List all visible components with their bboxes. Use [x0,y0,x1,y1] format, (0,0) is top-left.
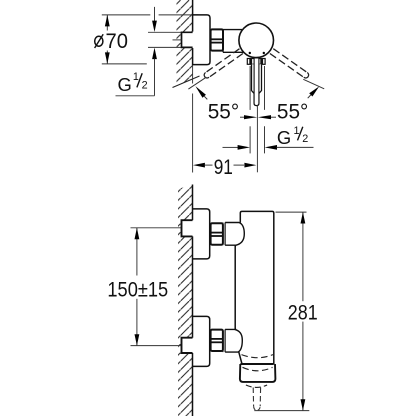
union nut bottom (bottom view) [211,330,223,351]
mixer body column (bottom view) [235,211,274,364]
lever / outlet centerline [256,105,258,172]
G1/2 (shower outlet) dimension arrows [223,146,239,148]
150±15 extension/centre lines [131,227,182,229]
shower hose nut block (bottom view) [240,363,273,365]
dimension Ø70: extension lines [102,14,151,16]
svg-text:2: 2 [302,133,308,145]
left 55° arc arrowhead (at lever) [195,86,206,98]
check valve dome bottom (bottom view) [225,329,242,352]
pivot dots on head [249,52,251,54]
phantom cone arc below hose nut [246,385,267,387]
body/dome transition arcs [235,245,236,329]
inlet pipe in wall, bottom (bottom view) [182,338,195,353]
svg-text:91: 91 [214,155,233,179]
dimension Ø70: dimension line + arrowheads [106,15,108,31]
lever stem (inner) [254,59,259,106]
outlet silhouette extension lines (for G1/2 below) [249,66,251,110]
lever collar (top view) [247,59,265,65]
svg-text:55°: 55° [208,100,239,123]
phantom cone arc inside hose nut [243,367,273,371]
check valve dome top (bottom view) [225,223,244,246]
dimension 150±15 [136,228,138,276]
dimension 281 extension lines [276,211,307,213]
svg-text:G: G [118,74,132,95]
svg-text:70: 70 [106,30,128,54]
dimension 91 [193,163,205,168]
svg-text:G: G [277,127,291,148]
wall hatching (top view) [177,0,193,86]
mixer head circle (top view) [239,23,274,58]
svg-text:281: 281 [288,301,318,325]
wall flange top (bottom view) [193,209,210,259]
svg-text:1: 1 [133,71,139,83]
svg-text:1: 1 [294,125,300,137]
right swing lever (dashed, 55°) [270,49,307,78]
G1/2 dimension line with arrows outside [154,7,156,21]
inlet pipe in wall, top (bottom view) [182,220,195,236]
phantom outlet nipple (dashed) [252,388,254,407]
wall break slash (top view) [173,76,200,88]
left lever tip cap (dashed) [204,73,209,78]
wall face line (bottom view) [192,185,194,221]
union nut (top view) [211,29,223,50]
phantom cone arc above hose nut [242,355,274,358]
svg-text:55°: 55° [277,100,308,123]
dimension Ø70: label [95,36,103,46]
55° angle arrows meeting at centerline [240,116,245,118]
right lever axis extension line [303,79,324,89]
G1/2 (wall union) dimension: extension lines from pipe edges [148,31,182,33]
wall hatching (bottom view) [178,185,193,416]
union nut top (bottom view) [211,223,223,244]
wall flange bottom (bottom view) [193,316,210,366]
left lever axis extension line [188,77,206,89]
lever shaft sleeve [252,64,262,105]
dimension 281 line + arrows [302,212,304,301]
wall flange / escutcheon (top view) [193,15,210,65]
left swing lever (dashed, 55°) [206,49,243,78]
right 55° arc arrowhead (at lever) [309,86,319,96]
label G 1/2 (top) with shelf line [116,95,155,97]
right lever tip cap (dashed) [304,73,309,78]
wall face line (top view), extends down as 91-dim extension line [192,65,194,84]
svg-text:150±15: 150±15 [107,278,168,302]
G1/2 inlet pipe in wall (top view) [182,32,195,47]
svg-text:2: 2 [142,80,148,92]
pipe centerline stub [173,39,182,41]
body neck between nut and head (top view) [223,30,244,53]
wall face line (top view) [192,0,194,32]
